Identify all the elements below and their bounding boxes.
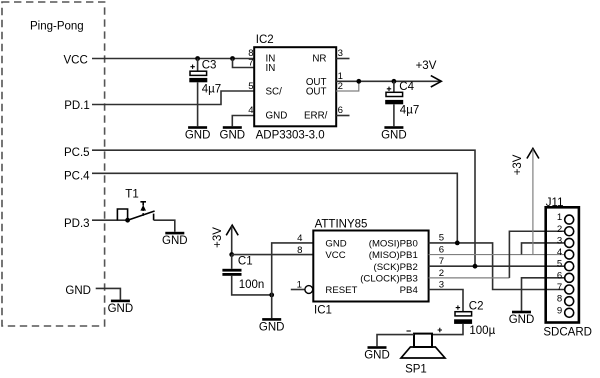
svg-text:ADP3303-3.0: ADP3303-3.0 — [256, 130, 325, 142]
svg-text:7: 7 — [557, 282, 562, 293]
microcontroller IC1 ATTINY85 box — [313, 231, 428, 302]
C4 positive plate — [386, 92, 403, 96]
node junction +3V C1 — [229, 252, 234, 257]
wire IC2 pin1 OUT to +3V — [336, 80, 440, 82]
plus sign C3 — [190, 65, 194, 69]
svg-text:GND: GND — [381, 130, 407, 142]
node junction PC.4 PB0 — [455, 241, 460, 246]
node junction VCC-pin7 — [230, 56, 235, 61]
switch fixed contact tick — [153, 214, 155, 221]
plus sign C2 — [456, 305, 460, 309]
svg-text:ATTINY85: ATTINY85 — [315, 219, 368, 231]
wire C2 bottom — [432, 324, 463, 335]
wire IC2 pin6 ERR stub — [336, 115, 349, 117]
svg-text:4: 4 — [248, 105, 254, 116]
connector pin numbers — [557, 212, 563, 316]
wire C4 bottom — [393, 104, 395, 126]
svg-text:GND: GND — [185, 130, 211, 142]
svg-text:PC.5: PC.5 — [64, 147, 90, 159]
wire C1 bottom — [232, 276, 272, 295]
ground symbol IC2 pin4 — [220, 126, 246, 141]
svg-text:SDCARD: SDCARD — [543, 326, 592, 338]
svg-text:GND: GND — [364, 350, 390, 362]
svg-text:RESET: RESET — [325, 285, 357, 296]
ground symbol T1 — [162, 232, 188, 247]
IC2 pin numbers — [248, 48, 343, 116]
svg-text:SP1: SP1 — [405, 364, 427, 376]
node junction T1 — [125, 218, 130, 223]
supply symbol +3V right arrow — [416, 60, 442, 87]
svg-text:2: 2 — [557, 224, 562, 235]
svg-text:6: 6 — [557, 270, 562, 281]
svg-text:(CLOCK)PB3: (CLOCK)PB3 — [360, 273, 418, 284]
switch T1 — [117, 189, 154, 221]
svg-text:J11: J11 — [546, 197, 564, 209]
wire RESET stub — [291, 289, 305, 291]
svg-text:100µ: 100µ — [469, 325, 495, 337]
C3 positive plate — [190, 71, 207, 75]
svg-text:+3V: +3V — [416, 60, 437, 72]
svg-text:NR: NR — [312, 54, 326, 65]
speaker driver box — [414, 334, 432, 347]
wire PB3 to SD2 riser — [509, 231, 564, 278]
wire IC2 pin2 OUT jog — [336, 81, 359, 91]
wire +3V to C1 junction — [231, 226, 233, 254]
C1 plate bottom — [222, 273, 241, 276]
svg-text:4: 4 — [297, 233, 303, 244]
wire IC2 pin3 NR stub — [336, 58, 349, 60]
wire PB4 net pin3 to C2 — [429, 290, 463, 312]
connector pin circles — [565, 215, 574, 317]
svg-text:C1: C1 — [238, 256, 253, 268]
plus sign C4 — [387, 87, 391, 91]
svg-text:C2: C2 — [469, 301, 484, 313]
svg-text:PB4: PB4 — [400, 285, 419, 296]
svg-text:GND: GND — [509, 314, 535, 326]
svg-text:IN: IN — [266, 63, 276, 74]
wire PB2 net pin7 to SD5 — [429, 265, 565, 267]
plus sign SP1 — [438, 328, 442, 332]
supply symbol +3V above C1 — [212, 225, 238, 248]
svg-text:5: 5 — [248, 81, 253, 92]
svg-text:GND: GND — [162, 235, 188, 247]
svg-text:5: 5 — [439, 232, 444, 243]
svg-text:ERR/: ERR/ — [304, 110, 328, 121]
wire SD6 to ground — [522, 278, 565, 311]
node junction C1 GND — [269, 293, 274, 298]
wire SP1 minus to GND — [377, 335, 414, 347]
node junction C4 — [392, 79, 397, 84]
ground symbol left — [108, 300, 134, 315]
svg-text:GND: GND — [220, 130, 246, 142]
wire PC.5 row — [92, 150, 475, 266]
svg-text:100n: 100n — [239, 279, 265, 291]
wire PB1 net pin6 to SD4 — [429, 254, 565, 256]
wire C4 top — [393, 81, 395, 92]
svg-text:7: 7 — [248, 57, 253, 68]
supply symbol +3V at SD card — [512, 148, 539, 175]
IC2 pin names — [266, 54, 328, 122]
wire +3V to SD4 — [532, 149, 534, 254]
C2 positive plate — [455, 312, 472, 316]
wire C3 top — [197, 59, 199, 72]
wire IC2 pin7 jog — [233, 59, 255, 68]
minus sign SP1 — [407, 330, 411, 332]
svg-text:(MOSI)PB0: (MOSI)PB0 — [369, 239, 418, 250]
svg-text:8: 8 — [557, 294, 562, 305]
svg-text:2: 2 — [338, 81, 343, 92]
svg-text:GND: GND — [108, 303, 134, 315]
connector J11 box — [546, 207, 579, 322]
svg-text:T1: T1 — [125, 189, 138, 201]
wire SD pin3 jog — [522, 243, 565, 255]
C1 plate top — [222, 269, 241, 272]
svg-text:C3: C3 — [202, 59, 217, 71]
switch actuator bar — [140, 201, 146, 203]
svg-text:4: 4 — [557, 247, 563, 258]
capacitor C4 — [385, 81, 419, 126]
wire IC2 pin4 GND — [232, 116, 254, 127]
svg-text:GND: GND — [266, 110, 288, 121]
op-amp regulator IC2 box — [254, 47, 336, 126]
svg-text:+3V: +3V — [212, 227, 224, 248]
svg-text:PD.3: PD.3 — [64, 218, 90, 230]
svg-text:VCC: VCC — [64, 54, 88, 66]
C4 negative plate — [385, 100, 403, 104]
switch body bump — [117, 209, 127, 220]
switch blade — [128, 211, 155, 220]
switch actuator arrowhead — [140, 205, 146, 211]
wire GND left — [96, 288, 121, 299]
svg-text:IC2: IC2 — [256, 34, 274, 46]
svg-text:(SCK)PB2: (SCK)PB2 — [374, 262, 418, 273]
ground symbol C4 — [381, 126, 407, 141]
C3 negative plate — [189, 78, 207, 82]
ground symbol SP1 — [364, 346, 390, 361]
C2 negative plate — [454, 319, 472, 324]
svg-text:9: 9 — [557, 305, 562, 316]
svg-text:1: 1 — [557, 212, 562, 223]
ATTINY pin numbers — [297, 232, 444, 290]
wire PD.3 to switch — [92, 219, 128, 221]
node junction PC.5 PB2 — [473, 264, 478, 269]
wire PB0 net pin5 — [429, 243, 565, 290]
svg-text:6: 6 — [338, 105, 343, 116]
svg-text:+3V: +3V — [512, 154, 524, 175]
svg-text:(MISO)PB1: (MISO)PB1 — [369, 250, 418, 261]
ATTINY pin names — [325, 239, 418, 297]
svg-text:4µ7: 4µ7 — [400, 104, 419, 116]
ground symbol C3 — [185, 126, 211, 141]
capacitor C3 — [189, 59, 221, 127]
svg-text:C4: C4 — [399, 81, 414, 93]
RESET inversion circle — [305, 286, 313, 294]
ground symbol C1 — [259, 318, 285, 333]
wire C3 bottom — [197, 82, 199, 126]
wire PC.4 row — [92, 173, 457, 243]
svg-text:3: 3 — [338, 48, 343, 59]
wire T1 to GND — [154, 220, 175, 232]
svg-text:8: 8 — [297, 245, 302, 256]
svg-text:PD.1: PD.1 — [64, 100, 90, 112]
svg-text:GND: GND — [65, 285, 91, 297]
speaker SP1 — [401, 328, 445, 376]
wire VCC row — [92, 58, 254, 60]
wire ATTINY pin4 to GND — [272, 243, 314, 318]
svg-text:OUT: OUT — [306, 87, 327, 98]
svg-text:PC.4: PC.4 — [64, 170, 90, 182]
speaker cone — [401, 347, 445, 358]
ground symbol SD — [509, 311, 535, 326]
module boundary dashed box Ping-Pong — [2, 2, 105, 326]
wire PB3 net pin2 — [429, 277, 510, 279]
svg-text:4µ7: 4µ7 — [202, 84, 221, 96]
svg-text:GND: GND — [259, 321, 285, 333]
node junction VCC-C3 — [195, 56, 200, 61]
svg-text:VCC: VCC — [325, 250, 345, 261]
node junction OUT pins — [356, 79, 361, 84]
svg-text:SC/: SC/ — [266, 87, 283, 98]
svg-text:Ping-Pong: Ping-Pong — [30, 21, 84, 33]
svg-text:5: 5 — [557, 259, 562, 270]
capacitor C2 — [432, 301, 496, 337]
capacitor C1 — [222, 255, 271, 295]
svg-text:3: 3 — [557, 235, 562, 246]
wire VCC row to ATTINY pin8 — [232, 254, 314, 256]
svg-text:IC1: IC1 — [314, 304, 332, 316]
wire PD.1 to IC2 SC pin5 — [92, 91, 254, 105]
wire C1 top — [231, 255, 233, 269]
svg-text:GND: GND — [325, 239, 346, 250]
switch actuator stem dashed — [142, 202, 144, 216]
